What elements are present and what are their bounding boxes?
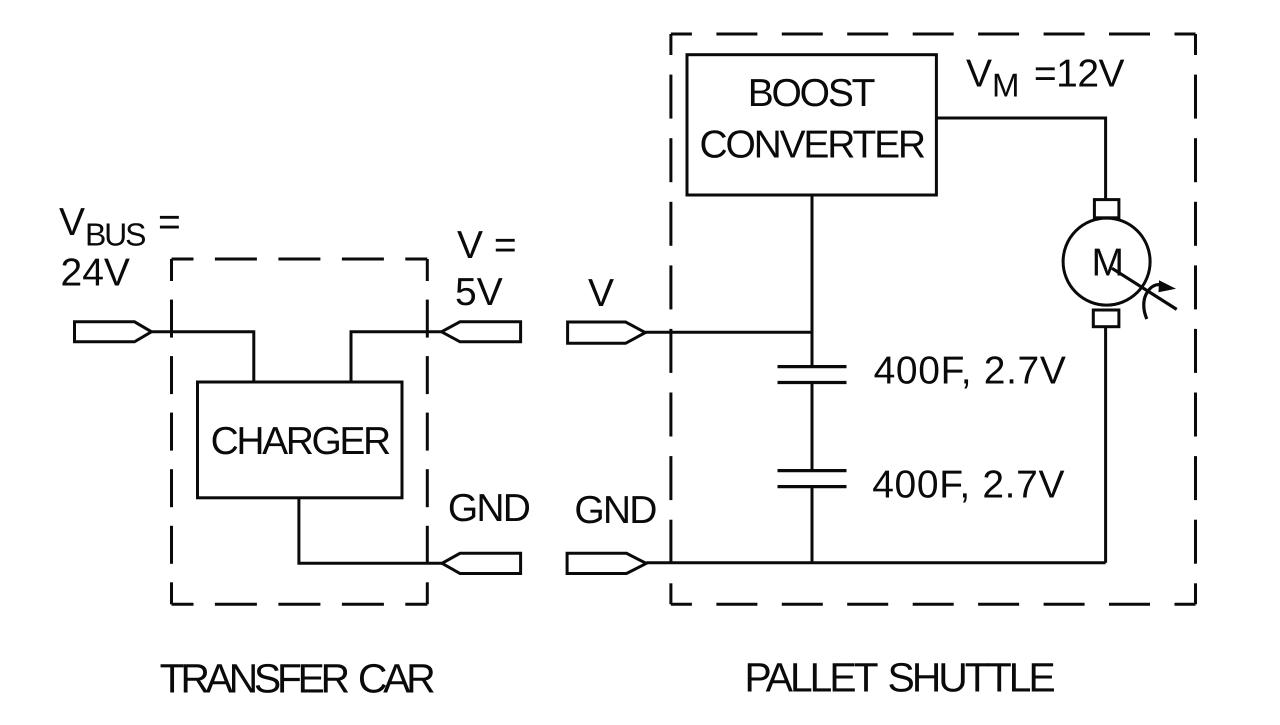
svg-text:400F, 2.7V: 400F, 2.7V [872, 463, 1065, 506]
connector GND pallet shuttle plug [567, 553, 646, 573]
motor M1 body [1063, 218, 1150, 305]
dashed enclosure PALLET SHUTTLE [671, 34, 1196, 604]
wire charger to 5V node [351, 332, 442, 382]
svg-text:PALLET SHUTTLE: PALLET SHUTTLE [744, 654, 1054, 700]
svg-text:CHARGER: CHARGER [211, 420, 390, 463]
svg-text:5V: 5V [455, 271, 503, 314]
svg-text:V =: V = [457, 224, 517, 267]
wire motor to ground rail [1104, 327, 1107, 563]
wire charger to GND plug [299, 498, 442, 564]
svg-text:GND: GND [448, 487, 530, 530]
motor M1 top brush [1094, 200, 1119, 218]
wire VBUS to charger [152, 332, 254, 382]
svg-text:TRANSFER CAR: TRANSFER CAR [160, 656, 434, 702]
wire boost to capacitor bank [811, 195, 814, 367]
svg-text:V: V [588, 272, 614, 315]
svg-text:VBUS =: VBUS = [59, 201, 181, 252]
wire boost output to motor [936, 118, 1105, 200]
connector V 5V output plug [442, 322, 521, 342]
connector V input pallet shuttle plug [568, 322, 646, 343]
charger block U1 [198, 382, 403, 498]
motor variable-speed arrow [1112, 268, 1177, 319]
capacitor C2 400F 2.7V [778, 471, 847, 487]
svg-text:BOOST: BOOST [748, 72, 875, 115]
motor M1 bottom brush [1093, 310, 1119, 327]
svg-text:400F, 2.7V: 400F, 2.7V [874, 350, 1067, 393]
capacitor C1 400F 2.7V [778, 367, 847, 383]
wire C1 to C2 [811, 383, 814, 471]
connector GND transfer car plug [442, 553, 521, 573]
connector VBUS input plug [75, 322, 152, 342]
boost converter block U2 [687, 55, 936, 195]
svg-text:GND: GND [574, 489, 656, 532]
wire C2 to ground rail [811, 487, 814, 563]
svg-text:CONVERTER: CONVERTER [700, 124, 925, 167]
wire V to boost node [645, 331, 812, 334]
dashed enclosure TRANSFER CAR [172, 259, 428, 604]
wire ground rail [646, 561, 1105, 564]
svg-text:24V: 24V [61, 251, 130, 294]
svg-text:M: M [1091, 242, 1124, 285]
svg-text:VM =12V: VM =12V [966, 53, 1125, 104]
